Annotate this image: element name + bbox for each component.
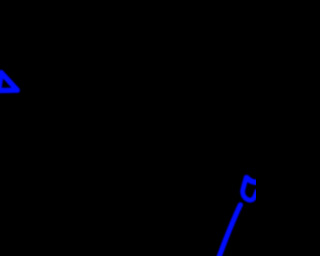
- pushpin head: top edge (cropped at right edge): [247, 178, 257, 183]
- triangle (cropped at left edge): [0, 73, 17, 91]
- pushpin needle: [218, 205, 240, 256]
- pushpin head: left edge, bottom edge and right corner: [243, 178, 257, 201]
- hand-drawn blue sketch fragments on black canvas: [0, 0, 256, 256]
